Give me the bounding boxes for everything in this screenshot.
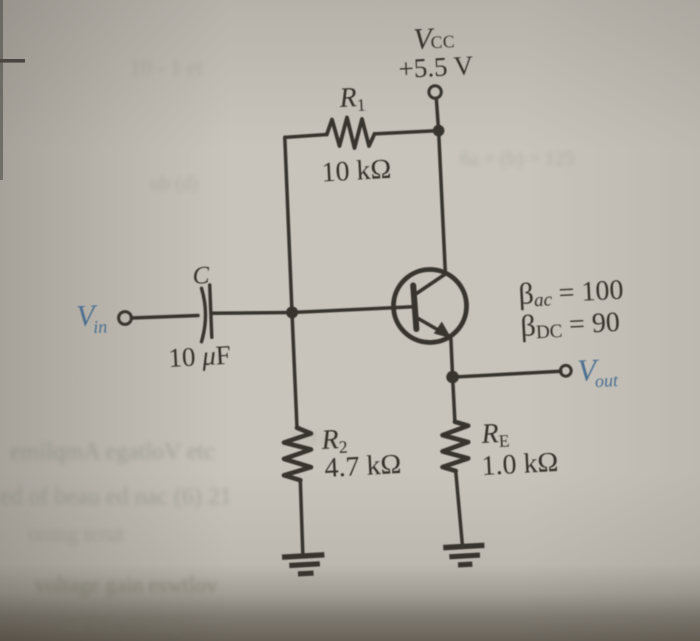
wire RE bottom to ground xyxy=(456,471,463,544)
svg-text:ed of beau ed nac (6) 21: ed of beau ed nac (6) 21 xyxy=(0,484,232,510)
wire R2 bottom to ground xyxy=(300,480,303,553)
svg-text:R: R xyxy=(338,82,358,114)
svg-text:4.7 kΩ: 4.7 kΩ xyxy=(324,449,402,484)
ground (RE) xyxy=(443,545,485,565)
svg-text:10 μF: 10 μF xyxy=(168,340,232,373)
svg-text:10 kΩ: 10 kΩ xyxy=(321,154,392,189)
faint bleed-through text xyxy=(0,55,575,637)
node base junction xyxy=(286,306,298,318)
terminal VCC (open) xyxy=(429,86,441,98)
label R2 xyxy=(320,424,348,458)
label RE xyxy=(480,418,510,452)
capacitor C straight plate xyxy=(210,285,212,337)
label Vout xyxy=(576,351,619,392)
wire corner to R1 left xyxy=(285,135,327,138)
label VCC xyxy=(413,21,456,56)
terminal Vout (open) xyxy=(560,365,571,376)
transistor collector diagonal xyxy=(417,274,446,294)
capacitor C curved plate xyxy=(202,288,206,342)
svg-text:1: 1 xyxy=(356,95,366,115)
ground (R2) xyxy=(282,555,325,575)
svg-text:in: in xyxy=(93,316,108,337)
label beta_ac = 100 xyxy=(518,273,625,312)
bottom shadow band xyxy=(0,470,700,641)
svg-text:ub (d): ub (d) xyxy=(150,173,198,195)
transistor emitter diagonal xyxy=(417,318,449,337)
svg-text:C: C xyxy=(192,262,210,290)
wire Vin to capacitor xyxy=(132,316,199,319)
svg-text:E: E xyxy=(498,431,510,452)
wire VCC terminal stem xyxy=(436,99,438,131)
svg-text:6a + (b) = 125: 6a + (b) = 125 xyxy=(460,148,575,170)
svg-text:CC: CC xyxy=(430,31,455,52)
transistor emitter arrowhead xyxy=(434,322,452,339)
svg-text:out: out xyxy=(594,370,619,391)
wire collector vertical xyxy=(439,131,446,274)
node VCC/R1 junction xyxy=(433,125,445,137)
wire Vout node to output terminal xyxy=(453,371,561,377)
resistor R1 xyxy=(327,118,375,149)
transistor Q1 circle xyxy=(394,270,467,343)
small dash at left margin xyxy=(0,59,25,63)
svg-text:out bila ni niag: out bila ni niag xyxy=(60,615,181,637)
wire left vertical (R1 corner to base node to R2) xyxy=(285,137,297,427)
svg-text:emilqmA egatloV etc: emilqmA egatloV etc xyxy=(10,439,215,465)
svg-text:R: R xyxy=(320,424,340,456)
node emitter/Vout junction xyxy=(446,371,459,384)
transistor base bar xyxy=(413,286,416,330)
label R1 xyxy=(338,82,366,116)
wire base node to transistor base xyxy=(292,307,413,313)
svg-text:1.0 kΩ: 1.0 kΩ xyxy=(481,447,559,482)
resistor R2 xyxy=(284,428,311,480)
wire R1 right to VCC node xyxy=(375,131,439,134)
svg-text:orang terut: orang terut xyxy=(28,521,124,546)
label Vin xyxy=(76,298,108,338)
terminal Vin (open) xyxy=(119,312,132,325)
wire emitter to Vout node to RE xyxy=(451,339,455,422)
svg-text:10 - 1 et: 10 - 1 et xyxy=(130,55,203,80)
wire capacitor to base node xyxy=(211,311,292,315)
svg-text:βDC = 90: βDC = 90 xyxy=(520,305,621,344)
svg-text:+5.5 V: +5.5 V xyxy=(398,50,475,84)
svg-text:voltage gain eswtlov: voltage gain eswtlov xyxy=(35,572,217,597)
resistor RE xyxy=(443,422,469,471)
label beta_DC = 90 xyxy=(520,305,621,344)
svg-text:R: R xyxy=(480,418,500,450)
